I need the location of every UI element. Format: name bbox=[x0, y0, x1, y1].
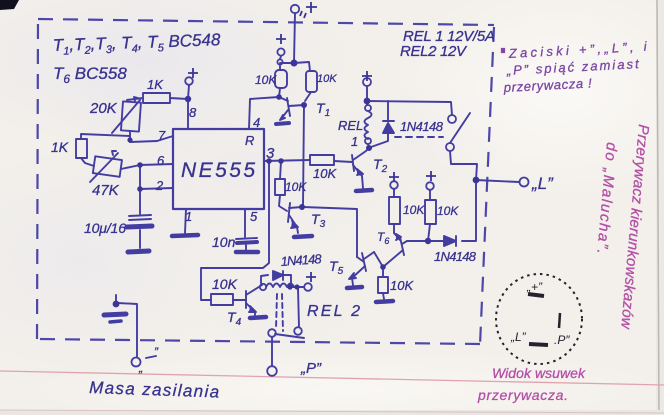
svg-text:REL: REL bbox=[338, 118, 363, 133]
svg-text:4: 4 bbox=[253, 115, 260, 130]
svg-text:REL2 12V: REL2 12V bbox=[400, 43, 468, 60]
svg-text:7: 7 bbox=[158, 128, 166, 143]
svg-text:10n: 10n bbox=[212, 234, 236, 250]
svg-text:10K: 10K bbox=[390, 278, 414, 293]
svg-text:10μ/16: 10μ/16 bbox=[84, 220, 126, 236]
svg-text:.P″: .P″ bbox=[554, 333, 570, 347]
svg-text:REL 2: REL 2 bbox=[307, 303, 360, 320]
svg-text:„L”: „L” bbox=[510, 330, 527, 344]
svg-text:1N4148: 1N4148 bbox=[434, 249, 477, 264]
svg-text:1: 1 bbox=[351, 134, 358, 149]
svg-text:1N4148: 1N4148 bbox=[400, 119, 444, 134]
svg-text:8: 8 bbox=[189, 105, 197, 120]
svg-text:1K: 1K bbox=[51, 139, 69, 155]
svg-text:20K: 20K bbox=[89, 100, 118, 117]
svg-text:NE555: NE555 bbox=[181, 159, 256, 182]
svg-text:1K: 1K bbox=[147, 77, 164, 92]
svg-text:10K: 10K bbox=[437, 204, 459, 218]
svg-text:6: 6 bbox=[157, 153, 165, 168]
svg-text:47K: 47K bbox=[92, 182, 120, 199]
svg-text:10K: 10K bbox=[285, 180, 307, 194]
svg-text:1N4148: 1N4148 bbox=[280, 251, 323, 269]
svg-text:przerywacza.: przerywacza. bbox=[477, 387, 568, 403]
svg-text:10K: 10K bbox=[317, 73, 337, 85]
svg-text:10K: 10K bbox=[255, 73, 277, 87]
svg-text:2: 2 bbox=[155, 178, 164, 193]
svg-text:5: 5 bbox=[250, 209, 258, 224]
svg-text:„P”: „P” bbox=[300, 360, 322, 377]
svg-text:„L”: „L” bbox=[531, 174, 554, 193]
svg-text:10K: 10K bbox=[403, 203, 425, 217]
svg-text:3: 3 bbox=[266, 145, 275, 162]
svg-text:R: R bbox=[245, 133, 254, 148]
svg-text:10K: 10K bbox=[313, 166, 337, 181]
svg-text:„+”: „+” bbox=[526, 280, 543, 294]
svg-text:Widok wsuwek: Widok wsuwek bbox=[492, 365, 586, 381]
svg-text:1: 1 bbox=[185, 209, 192, 224]
svg-text:„: „ bbox=[138, 361, 143, 375]
svg-text:10K: 10K bbox=[212, 276, 238, 292]
